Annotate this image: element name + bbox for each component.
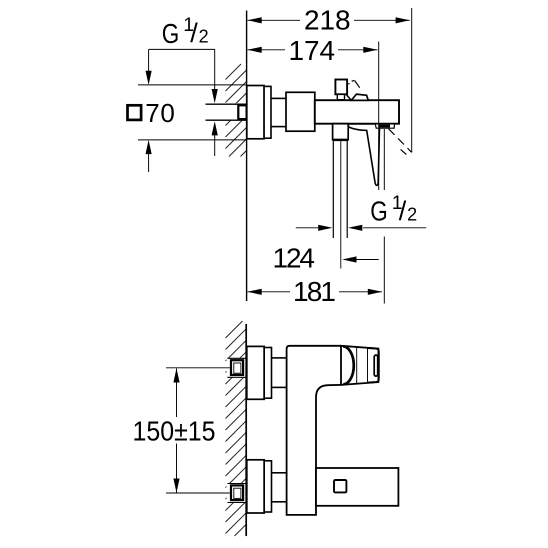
G 1/2 top label bbox=[162, 14, 209, 49]
supply pipe white cover (side view) bbox=[206, 103, 247, 121]
lever base wedge (side view) bbox=[351, 94, 368, 100]
svg-text:2: 2 bbox=[199, 26, 209, 46]
knob cap (side view) bbox=[335, 80, 347, 95]
inlet fitting white cover bottom (front view) bbox=[227, 484, 247, 503]
G 1/2 top leader line bbox=[149, 48, 215, 50]
aerator black insert bbox=[379, 125, 390, 128]
svg-text:124: 124 bbox=[273, 243, 316, 274]
main body (side view) bbox=[315, 100, 399, 124]
top escutcheon (front view) bbox=[247, 346, 264, 399]
G 1/2 outlet dimension left arrow bbox=[296, 227, 319, 229]
extension line 181 upper segment bbox=[383, 129, 385, 190]
dimension 181 bbox=[248, 291, 383, 293]
G 1/2 outlet dimension right arrow bbox=[363, 227, 426, 229]
supply pipe walls (side view) bbox=[206, 104, 247, 120]
wall line (side view) bbox=[246, 11, 248, 302]
valve body block (side view) bbox=[286, 92, 315, 131]
bath outlet block (front view) bbox=[316, 468, 398, 506]
G 1/2 arrow onto pipe bottom bbox=[214, 131, 216, 156]
bottom inlet socket lines bbox=[227, 484, 246, 503]
dimension 218 bbox=[248, 19, 410, 21]
svg-text:G: G bbox=[370, 195, 388, 226]
svg-text:/: / bbox=[190, 18, 198, 48]
wall hatching (front view) bbox=[226, 321, 247, 536]
svg-text:181: 181 bbox=[293, 276, 336, 307]
aerator mousseur (side view) bbox=[375, 125, 394, 129]
knob stem bbox=[337, 94, 344, 99]
water stream dashed projection bbox=[389, 129, 412, 153]
extension line 174 right bbox=[378, 42, 380, 191]
outlet square detail bbox=[334, 480, 346, 492]
dimension 174 bbox=[248, 49, 378, 51]
bottom inlet square union (bold) bbox=[231, 485, 243, 500]
lever handle (side view) bbox=[348, 124, 379, 185]
raised lever dashes bbox=[352, 80, 360, 87]
svg-text:/: / bbox=[399, 196, 407, 226]
extension line 181 lower segment bbox=[383, 237, 385, 304]
inlet fitting white cover top (front view) bbox=[227, 359, 247, 378]
connector neck (side view) bbox=[271, 98, 286, 126]
bottom escutcheon (front view) bbox=[247, 460, 264, 513]
svg-text:70: 70 bbox=[145, 98, 175, 128]
top inlet square union (bold) bbox=[231, 360, 243, 375]
body outline (front view) bbox=[287, 346, 341, 515]
svg-text:2: 2 bbox=[407, 204, 417, 224]
top inlet socket lines bbox=[227, 358, 246, 377]
spout (front view) bbox=[341, 346, 378, 385]
top connector neck (front view) bbox=[272, 358, 287, 388]
dimension 124 bbox=[356, 259, 379, 261]
bottom connector neck (front view) bbox=[272, 473, 287, 502]
knob tick bbox=[347, 83, 350, 86]
spout divider 1 bbox=[356, 347, 358, 383]
escutcheon lip (side view) bbox=[264, 86, 271, 138]
dimension 70: top outside arrow bbox=[148, 49, 150, 73]
dimension 150±15 bbox=[176, 369, 178, 493]
extension line 218 right bbox=[411, 8, 413, 152]
wall line (front view) bbox=[245, 324, 247, 536]
extension line 150 bottom bbox=[166, 492, 231, 494]
second dash near extension bbox=[401, 149, 407, 154]
svg-text:218: 218 bbox=[304, 5, 351, 36]
spout end cap bbox=[368, 348, 379, 383]
svg-text:G: G bbox=[162, 18, 180, 49]
outlet pipe centre / extension line for 124 bbox=[340, 141, 342, 269]
extension line 70 top bbox=[138, 84, 247, 86]
diagonal notch bbox=[347, 95, 352, 100]
bottom escutcheon lip bbox=[264, 461, 271, 512]
top escutcheon lip bbox=[264, 348, 271, 399]
outlet pipe lines (side view) bbox=[332, 141, 334, 238]
top inlet inner square bbox=[234, 363, 241, 373]
bottom inlet inner square bbox=[234, 488, 241, 498]
square symbol for 70 bbox=[128, 105, 142, 120]
G 1/2 arrow onto pipe top bbox=[214, 49, 216, 92]
G 1/2 bottom label bbox=[370, 192, 417, 227]
spout transition arc (bold) bbox=[343, 347, 354, 385]
svg-text:174: 174 bbox=[289, 35, 336, 66]
aerator slot (front view) bbox=[374, 355, 378, 376]
svg-text:150±15: 150±15 bbox=[133, 416, 216, 447]
pipe union fitting (side view, bold) bbox=[238, 105, 246, 119]
extension line 70 bottom bbox=[138, 139, 247, 141]
spout divider 2 bbox=[367, 348, 369, 383]
wall hatching (side view) bbox=[226, 64, 247, 157]
extension line 150 top bbox=[166, 367, 231, 369]
shower outlet union (side view) bbox=[333, 124, 349, 140]
dimension 70: bottom outside arrow bbox=[148, 151, 150, 172]
escutcheon (side view) bbox=[247, 86, 264, 139]
